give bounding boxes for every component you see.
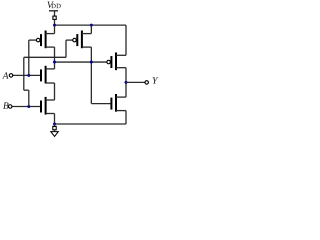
VDD label — [47, 2, 60, 8]
wire B up-feed lower segment — [28, 90, 30, 106]
node X-right (junction dot) — [90, 61, 93, 64]
wire B feed jog — [24, 89, 29, 91]
wire VDD rail drop to P3 source — [125, 25, 127, 55]
node GND junction (junction dot) — [53, 123, 56, 126]
node VDD-P1 (junction dot) — [53, 24, 56, 27]
nmos transistor N1 — [13, 66, 55, 84]
node B junction (junction dot) — [27, 105, 30, 108]
terminal Y — [145, 81, 149, 85]
output label Y — [153, 77, 159, 83]
wire node X down-feed to N3 gate — [90, 62, 92, 104]
wire B up-feed mid segment — [23, 57, 25, 90]
wire VDD rail — [55, 24, 127, 26]
pmos transistor P2 — [66, 31, 91, 49]
pmos transistor P3 — [55, 52, 127, 70]
node A junction (junction dot) — [27, 74, 30, 77]
wire N1 source to N2 drain — [54, 83, 56, 100]
node X-left (junction dot) — [53, 61, 56, 64]
wire GND rail — [55, 123, 127, 125]
node VDD-P2 (junction dot) — [90, 24, 93, 27]
wire Y output lead — [126, 81, 145, 83]
ground symbol — [51, 124, 59, 136]
input label B — [3, 103, 8, 109]
VDD power symbol — [49, 11, 58, 25]
wire N3 drain up to Y — [125, 82, 127, 97]
wire B feed rise to P2 gate — [65, 40, 67, 57]
wire N3 source down to GND rail — [125, 111, 127, 124]
terminal B — [8, 105, 12, 109]
nmos transistor N2 — [12, 97, 55, 115]
node Y junction (junction dot) — [125, 81, 128, 84]
terminal A — [9, 74, 13, 78]
input label A — [2, 72, 8, 78]
wire P1 drain down to node X — [54, 47, 56, 62]
wire N2 source down to GND — [54, 114, 56, 125]
wire P3 drain down to Y — [125, 68, 127, 83]
wire B feed horizontal to P2 gate — [24, 56, 66, 58]
wire P2 drain down to node X — [90, 47, 92, 62]
pmos transistor P1 — [29, 31, 55, 49]
wire A up-feed to P1 gate — [28, 40, 30, 75]
wire P2 source up to VDD — [90, 25, 92, 33]
nmos transistor N3 — [91, 94, 126, 112]
wire N1 drain up to node X — [54, 62, 56, 69]
wire P1 source up to VDD — [54, 25, 56, 33]
